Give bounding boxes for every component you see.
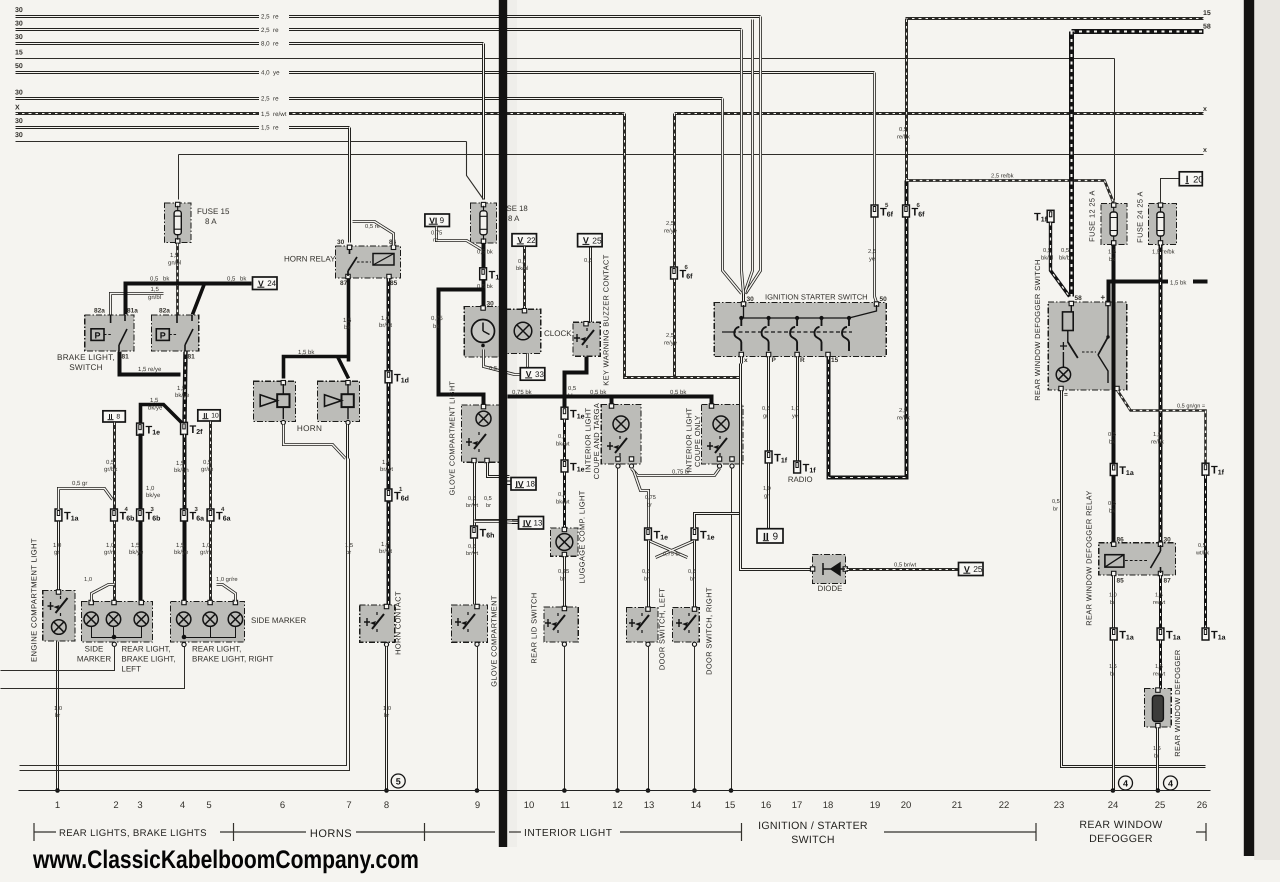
svg-text:1,5: 1,5 [345,543,353,549]
connector T1e brake [137,423,161,437]
svg-text:bk/ye: bk/ye [174,549,189,556]
connector T1d horn [385,371,409,385]
svg-text:18: 18 [526,480,535,489]
connector T1a defogger relay [1110,464,1134,478]
svg-text:REAR LID SWITCH: REAR LID SWITCH [530,592,539,663]
svg-text:1,5: 1,5 [151,286,160,293]
svg-text:8: 8 [384,800,389,811]
svg-text:30: 30 [15,90,23,97]
svg-text:19: 19 [870,800,881,811]
watermark [32,846,419,874]
wire horn relay 85 to horn contact hatched [387,279,391,606]
svg-text:KEY WARNING BUZZER CONTACT: KEY WARNING BUZZER CONTACT [602,254,611,385]
svg-text:14: 14 [691,800,702,811]
rear window defogger relay [1099,543,1176,575]
svg-text:0,5: 0,5 [1043,247,1051,254]
node left box ground pin [112,642,116,646]
bus 30 line 4 [16,97,723,100]
svg-text:gn/bl: gn/bl [168,260,181,267]
wire ignition X to diode junction [741,357,742,512]
brake light switch right [151,315,198,351]
interior light coupe only [702,405,744,465]
svg-text:1,5 bk: 1,5 bk [1170,280,1187,287]
svg-text:x: x [744,357,748,364]
svg-text:2,5 re: 2,5 re [261,14,279,21]
svg-text:REAR WINDOW DEFOGGER RELAY: REAR WINDOW DEFOGGER RELAY [1085,490,1094,626]
svg-text:REAR LIGHT,: REAR LIGHT, [121,645,170,654]
svg-text:REAR WINDOW: REAR WINDOW [1079,819,1162,831]
wire defogger plus feed thick [1109,282,1208,303]
wire V25 to key buzzer [589,248,592,323]
jumper 1,0 gr/re right box [217,585,236,602]
node interior2 pins [717,464,721,468]
svg-text:br: br [1110,599,1115,606]
connector T6h glove [471,526,495,540]
connector T1a engine light [55,509,79,523]
svg-text:6: 6 [280,800,285,811]
node circle 4 track25 [1164,776,1178,790]
svg-text:COUPE AND TARGA: COUPE AND TARGA [592,403,601,479]
svg-text:1,5: 1,5 [170,252,179,259]
svg-text:0,75: 0,75 [431,315,443,322]
II 10 box [198,410,220,421]
svg-text:22: 22 [527,236,536,245]
wire VI9 to fuse18 bottom [437,227,482,250]
svg-text:br/wt: br/wt [379,322,392,329]
wire clock lamp down to V33 [522,354,528,375]
svg-text:=: = [1064,392,1068,399]
wire glove light left pin to T6h [473,463,476,527]
svg-text:4: 4 [180,800,185,811]
node glove switch pin [475,642,479,646]
svg-text:gr: gr [54,550,59,556]
svg-text:10: 10 [211,413,219,420]
svg-text:BRAKE LIGHT,: BRAKE LIGHT, [121,655,175,664]
wire fuse12 feed from bus 15 [1114,59,1116,201]
svg-text:bk: bk [1109,256,1115,263]
V25 box top [578,234,603,247]
svg-text:0,75: 0,75 [431,230,442,237]
connector T2f [181,422,204,436]
svg-text:8: 8 [116,414,120,421]
wire interior1 left pin to rail track12 [617,469,619,791]
svg-text:82a: 82a [94,308,105,315]
wire feeds converging to ignition 30 [746,17,761,294]
wire relay 85 down [1112,576,1115,629]
svg-text:FUSE 15: FUSE 15 [197,207,230,216]
wire T1e down to T6b3 [139,434,143,510]
svg-text:0,5: 0,5 [584,257,592,264]
VI 9 box [425,214,450,227]
wire X bus T6f branch [673,114,676,268]
svg-text:SWITCH: SWITCH [69,363,103,372]
svg-text:re/ye: re/ye [664,228,677,235]
svg-text:23: 23 [1054,800,1065,811]
svg-text:25: 25 [973,564,983,574]
svg-text:ye: ye [792,414,798,420]
svg-text:COUPE ONLY: COUPE ONLY [693,415,702,467]
svg-text:82a: 82a [159,308,170,315]
svg-text:1,0: 1,0 [54,705,62,712]
connector T6b3 [137,509,161,523]
svg-text:HORNS: HORNS [310,828,352,840]
wire defogger element to rail track25 [1156,728,1159,790]
svg-text:30: 30 [15,118,23,125]
bottom rail [19,790,1211,792]
svg-text:br/wt: br/wt [466,502,479,509]
svg-text:1,5: 1,5 [1155,593,1163,599]
svg-text:30: 30 [487,301,495,308]
svg-text:1,0: 1,0 [146,485,155,492]
svg-text:2: 2 [113,800,118,811]
svg-text:0,5: 0,5 [762,406,770,412]
wire X bus hatched loop left [625,114,741,378]
svg-text:bk/ye: bk/ye [146,492,161,499]
connector T1f right edge [1202,463,1225,477]
svg-text:0,5 br/wt: 0,5 br/wt [894,562,917,569]
svg-text:15: 15 [725,800,736,811]
wire fuse24 to I20 [1161,179,1180,204]
rear light left lamp box [81,602,152,643]
node circle 4 track24 [1119,776,1133,790]
engine compartment light [43,591,75,642]
node circle 5 [391,774,405,788]
svg-text:IGNITION STARTER SWITCH: IGNITION STARTER SWITCH [765,293,868,302]
bus X line hatched [16,112,625,115]
wire T1e to door switch left [647,541,650,608]
svg-text:FUSE 24 25 A: FUSE 24 25 A [1136,191,1145,243]
svg-text:bk/ye: bk/ye [129,549,144,556]
wire T6b4 to lamp box [113,522,116,602]
wire T1f to defogger 58 pin [1051,223,1070,297]
svg-text:15: 15 [831,357,839,364]
wire T1e to T1e luggage [563,420,566,461]
wire interior1 right pin to door T1e [634,471,649,529]
svg-text:0,5: 0,5 [1198,543,1206,549]
svg-text:24: 24 [267,279,276,288]
svg-text:0,75 br: 0,75 br [672,469,690,476]
svg-text:re/bk: re/bk [897,134,910,141]
svg-text:0,5 bk: 0,5 bk [670,389,687,396]
svg-text:1,5 re/bk: 1,5 re/bk [1152,249,1175,256]
wire relay 87 down hatched [1159,576,1162,629]
ignition starter switch [714,302,886,356]
svg-text:bk/gn: bk/gn [174,467,189,474]
svg-text:1,5: 1,5 [1153,746,1161,752]
svg-text:30: 30 [15,21,23,28]
wire door left to rail track13 [648,647,650,791]
svg-text:br: br [644,576,649,583]
svg-text:REAR WINDOW DEFOGGER SWITCH: REAR WINDOW DEFOGGER SWITCH [1033,259,1042,400]
wire fuse12 to defogger relay 86 thick [1112,245,1116,543]
door switch left [627,608,658,642]
svg-text:30: 30 [15,132,23,139]
bus x line lower [179,154,1204,156]
svg-text:HORN: HORN [297,424,322,433]
wire ignition P to T1f [767,357,770,452]
wire ignition X pin stub [739,364,742,378]
wire T6h to IV13 [475,522,519,523]
svg-text:1,5: 1,5 [1109,664,1117,670]
wire fuse18 feed single from bus 30-6 [467,142,484,200]
svg-text:re/ye: re/ye [664,340,677,347]
svg-text:ye: ye [869,257,875,263]
wire T6b3 to lamp box [139,522,143,602]
svg-text:bk: bk [344,324,351,331]
svg-text:bk: bk [1109,508,1115,515]
clock lamp box [505,309,541,353]
svg-text:bk/bl: bk/bl [516,265,528,272]
wire T1a to rail track24 [1112,641,1115,790]
connector T1a 85 [1110,628,1134,642]
wire fuse15 to brake switch gn/bl [176,244,179,315]
wire right 81 to T2f bk/ye [185,352,186,423]
bus 30 line 2 [16,28,742,31]
svg-text:10: 10 [524,800,535,811]
wire key buzzer to T1e junction thick [565,357,587,408]
svg-text:br: br [1110,671,1115,678]
svg-text:DIODE: DIODE [818,584,843,593]
svg-text:1,0: 1,0 [791,406,799,412]
svg-text:bk/wt: bk/wt [556,499,570,506]
svg-text:GLOVE COMPARTMENT: GLOVE COMPARTMENT [490,595,499,687]
wire defogger switch ground br [1062,391,1206,767]
wire T1a to defogger element [1159,641,1162,689]
wire T1e diode junction link [695,514,740,529]
wire II10 to T6a4 [209,422,212,510]
svg-text:DOOR SWITCH, LEFT: DOOR SWITCH, LEFT [658,588,667,670]
svg-text:50: 50 [880,296,888,303]
wire ignition 15 loop hatched [829,181,907,478]
svg-text:1,0: 1,0 [1109,593,1117,599]
brake light switch left [85,315,134,351]
svg-text:0,5: 0,5 [150,276,159,283]
svg-text:IGNITION / STARTER: IGNITION / STARTER [758,820,868,832]
svg-text:RADIO: RADIO [788,475,813,484]
svg-text:REAR LIGHT,: REAR LIGHT, [192,645,241,654]
wire door T1e crossover [649,541,695,558]
svg-text:9: 9 [440,216,445,225]
svg-text:1,0: 1,0 [383,705,391,712]
svg-text:87: 87 [340,280,348,287]
svg-text:0,5 bk: 0,5 bk [477,249,493,256]
wire clock to V33 [484,350,521,375]
wire ignition R to radio T1f [796,357,799,463]
svg-text:re/wt: re/wt [1153,671,1166,678]
node rear lid pin [562,642,566,646]
svg-text:gr/bk: gr/bk [104,466,118,473]
bus 30 line 1 [16,15,761,18]
svg-text:2,5: 2,5 [899,407,907,414]
svg-text:24: 24 [1108,800,1119,811]
V24 box [253,277,278,290]
connector T1f P [765,451,788,465]
svg-text:br: br [384,712,389,719]
wire II8 to T6b4 [113,423,116,510]
wire T1e to door switch right [693,541,696,608]
svg-text:0,5 re: 0,5 re [365,223,380,230]
svg-text:br: br [1053,506,1058,513]
svg-text:bk: bk [163,276,170,283]
svg-text:4,0 ye: 4,0 ye [261,70,280,77]
svg-text:12: 12 [612,800,623,811]
rear window defogger element [1145,689,1172,728]
svg-text:gr: gr [763,414,768,420]
svg-text:1,5 re: 1,5 re [261,125,279,132]
connector T1a right edge [1202,628,1226,642]
wire rear lid to rail track11 [564,647,566,791]
svg-text:1,5: 1,5 [1153,432,1161,438]
svg-text:REAR LIGHTS, BRAKE LIGHTS: REAR LIGHTS, BRAKE LIGHTS [59,828,207,839]
connector T1e luggage top [561,407,585,421]
svg-text:0,5: 0,5 [1061,247,1069,254]
svg-text:re/bk: re/bk [897,415,910,422]
svg-text:0,5: 0,5 [1108,500,1116,507]
node horn pins [281,420,285,424]
svg-text:0,5 gn/gn =: 0,5 gn/gn = [1177,403,1205,410]
svg-text:0,75 br: 0,75 br [663,551,681,558]
svg-text:30: 30 [337,239,345,246]
svg-text:1,5: 1,5 [343,317,352,324]
svg-text:0,5: 0,5 [203,459,212,466]
svg-text:ENGINE COMPARTMENT LIGHT: ENGINE COMPARTMENT LIGHT [30,538,39,662]
bus 15 hatched top right [906,17,1204,20]
svg-text:4: 4 [1123,778,1128,788]
svg-text:2,5 re: 2,5 re [261,96,279,103]
svg-text:1,0: 1,0 [381,315,390,322]
svg-text:DEFOGGER: DEFOGGER [1089,833,1153,845]
wire interior2 right pin to rail track15 [731,469,733,791]
bus 58 hatched top right [1072,29,1204,34]
svg-text:0,5: 0,5 [688,569,696,575]
node right box ground pin [182,642,186,646]
wire horn relay feed from bus 30-5 [348,128,351,243]
svg-text:bk/ye: bk/ye [148,405,163,412]
wire defogger switch gnd green [1118,391,1206,464]
node interior1 pins [616,464,620,468]
svg-text:85: 85 [1117,578,1125,585]
svg-text:X: X [15,105,20,112]
bus 50 line [16,71,875,74]
IV 18 box [511,478,536,491]
fuse F24 [1149,204,1177,245]
wire horn relay 87 to horns thick [284,279,349,379]
svg-text:16: 16 [761,800,772,811]
V33 box [520,368,545,381]
svg-text:0,5: 0,5 [1108,431,1116,438]
connector T6f 15 [903,205,926,219]
svg-text:x: x [1203,147,1207,154]
glove compartment switch [452,605,488,642]
svg-text:gr/re: gr/re [200,549,213,556]
svg-text:13: 13 [644,800,655,811]
svg-text:25: 25 [592,235,602,245]
svg-text:1,5 re/ye: 1,5 re/ye [138,366,162,373]
node door right pin [692,642,696,646]
wire T6h to glove switch [473,539,476,605]
svg-text:1,5: 1,5 [1108,250,1116,256]
wire fuse18 feed double from bus 30-3 [482,44,485,200]
svg-text:bk/bl: bk/bl [1041,255,1053,262]
diode junction wires [741,512,812,570]
wire T1a up link [59,489,113,510]
wire T6a4 to lamp box [209,522,212,602]
svg-text:87: 87 [1164,578,1172,585]
svg-text:re/bk: re/bk [1151,439,1164,446]
svg-text:LEFT: LEFT [121,665,141,674]
right black bar [1244,0,1254,856]
svg-text:SWITCH: SWITCH [791,834,835,846]
svg-text:30: 30 [747,296,755,303]
svg-text:br/wt: br/wt [466,550,479,557]
svg-text:58: 58 [1075,295,1083,302]
bus 15 line [16,58,1115,60]
svg-text:15: 15 [1203,10,1211,17]
wire 58 hatched to defogger switch [1069,32,1074,297]
rear light right lamp box [171,602,245,643]
svg-text:br: br [647,502,652,509]
node brake feed split [111,294,164,315]
node horn contact pin [384,642,388,646]
svg-text:18: 18 [823,800,834,811]
fuse F12 [1101,204,1127,245]
svg-text:1,5: 1,5 [1155,664,1163,670]
svg-text:0,5: 0,5 [518,258,526,265]
connector T6f x [671,267,694,281]
svg-text:P: P [160,330,166,340]
wire glove light right pin to IV18 [488,463,510,477]
svg-text:58: 58 [1203,24,1211,31]
wire T2f to T6a3 [182,435,186,510]
svg-text:br/wt: br/wt [379,548,392,555]
svg-text:1,5: 1,5 [131,542,140,549]
bus wire gauge labels [259,12,289,20]
svg-text:9: 9 [475,800,480,811]
svg-text:17: 17 [792,800,803,811]
svg-text:bk/bl: bk/bl [1059,255,1071,262]
svg-text:0,5 bk: 0,5 bk [590,389,607,396]
wire fuse18 to T1d clock [482,244,486,307]
connector T1f radio [794,461,817,475]
svg-text:+: + [1101,293,1106,302]
svg-text:30: 30 [15,34,23,41]
svg-text:P: P [94,330,100,340]
svg-text:13: 13 [534,519,543,528]
svg-text:br: br [690,576,695,583]
wire brake switch to V24 thick [126,284,252,315]
wire luggage light to rear lid switch [563,557,566,607]
wire T1a to engine light [57,522,60,591]
svg-text:5: 5 [206,800,211,811]
connector T1d clock [480,268,504,282]
svg-text:5: 5 [396,776,401,786]
svg-text:DOOR SWITCH, RIGHT: DOOR SWITCH, RIGHT [705,587,714,675]
svg-text:0,5 gr: 0,5 gr [72,480,87,487]
svg-text:33: 33 [535,370,544,379]
II 8 box [103,411,125,422]
wire glove light feed thick [439,290,484,405]
svg-text:1,0: 1,0 [202,542,211,549]
bus 30 line 6 [16,141,467,143]
svg-text:2,5 re/bk: 2,5 re/bk [991,173,1014,180]
svg-text:81: 81 [188,354,196,361]
svg-text:0,5: 0,5 [484,496,492,502]
svg-text:86: 86 [1117,537,1125,544]
svg-text:2,5: 2,5 [666,220,674,227]
svg-text:bk/ye: bk/ye [175,392,190,399]
wire interior1 right pin link to interior2 [632,469,720,476]
connector T6b4 [111,509,135,523]
